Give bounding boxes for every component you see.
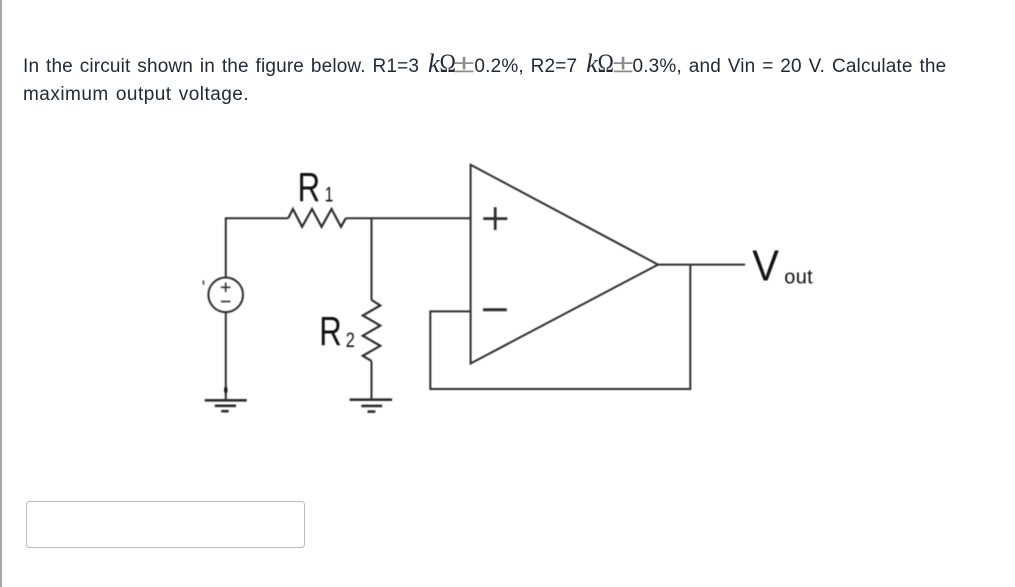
svg-text:R: R [319, 308, 342, 354]
svg-text:V: V [752, 241, 779, 290]
svg-text:R: R [298, 164, 321, 210]
svg-text:1: 1 [325, 182, 334, 206]
svg-text:out: out [784, 266, 813, 288]
svg-text:2: 2 [346, 328, 355, 351]
